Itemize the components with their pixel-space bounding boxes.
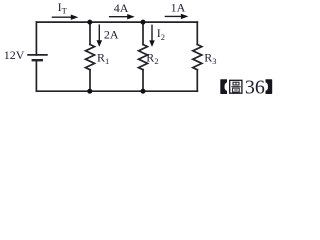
svg-text:4A: 4A [114,1,129,15]
svg-text:1A: 1A [171,1,186,15]
svg-text:36: 36 [245,76,265,98]
svg-text:2A: 2A [104,27,119,41]
svg-text:12V: 12V [4,48,25,62]
